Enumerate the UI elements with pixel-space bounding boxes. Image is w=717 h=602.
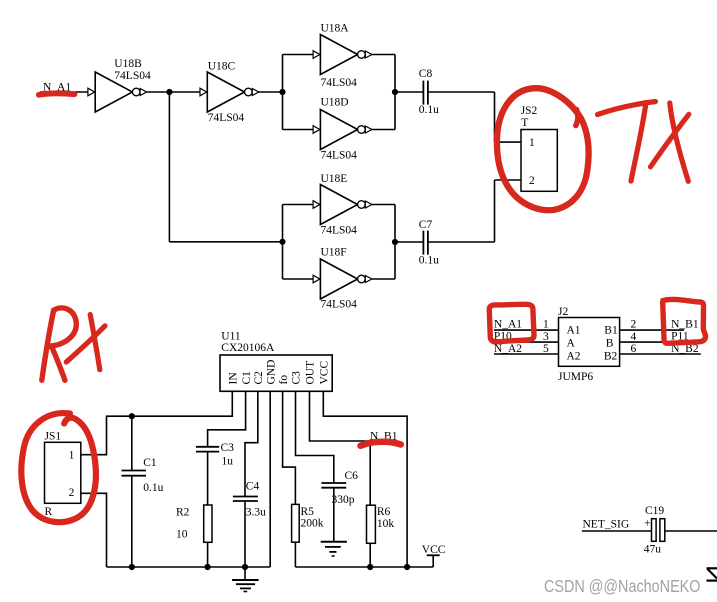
svg-text:74LS04: 74LS04 — [114, 70, 151, 82]
svg-text:B: B — [606, 338, 614, 350]
svg-text:J2: J2 — [558, 306, 568, 318]
svg-text:R5: R5 — [301, 506, 315, 518]
svg-text:0.1u: 0.1u — [419, 255, 439, 267]
svg-text:R6: R6 — [377, 506, 391, 518]
svg-text:R: R — [45, 506, 53, 518]
svg-text:IN: IN — [228, 372, 240, 385]
svg-text:0.1u: 0.1u — [419, 104, 439, 116]
svg-text:A2: A2 — [567, 351, 581, 363]
svg-text:74LS04: 74LS04 — [321, 77, 358, 89]
svg-text:NET_SIG: NET_SIG — [583, 519, 630, 531]
svg-text:3.3u: 3.3u — [246, 506, 266, 518]
svg-text:C1: C1 — [143, 457, 157, 469]
svg-text:A: A — [567, 338, 576, 350]
svg-text:N_A1: N_A1 — [494, 319, 522, 331]
svg-text:JS1: JS1 — [45, 431, 62, 443]
svg-text:1: 1 — [529, 137, 535, 149]
svg-text:U18A: U18A — [321, 22, 350, 34]
svg-text:U18C: U18C — [208, 61, 236, 73]
svg-text:C8: C8 — [419, 68, 433, 80]
svg-text:3: 3 — [543, 331, 549, 343]
svg-text:C3: C3 — [221, 442, 235, 454]
svg-text:+: + — [644, 517, 651, 529]
svg-text:2: 2 — [631, 319, 637, 331]
svg-text:U11: U11 — [221, 330, 241, 342]
svg-text:C7: C7 — [419, 219, 433, 231]
svg-text:74LS04: 74LS04 — [321, 299, 358, 311]
svg-text:JUMP6: JUMP6 — [558, 371, 593, 383]
svg-text:JS2: JS2 — [521, 105, 538, 117]
svg-text:U18D: U18D — [321, 97, 349, 109]
svg-text:1: 1 — [69, 450, 75, 462]
svg-text:C2: C2 — [253, 371, 265, 385]
svg-text:330p: 330p — [332, 494, 355, 506]
svg-text:74LS04: 74LS04 — [321, 225, 358, 237]
svg-text:10: 10 — [176, 529, 188, 541]
svg-text:B1: B1 — [604, 324, 618, 336]
svg-text:CSDN @@NachoNEKO: CSDN @@NachoNEKO — [544, 576, 701, 596]
svg-text:VCC: VCC — [422, 544, 446, 556]
svg-text:1: 1 — [543, 319, 549, 331]
svg-text:C1: C1 — [241, 371, 253, 385]
svg-text:VCC: VCC — [319, 361, 331, 385]
svg-text:C6: C6 — [345, 470, 359, 482]
svg-text:0.1u: 0.1u — [143, 482, 163, 494]
svg-text:U18F: U18F — [321, 247, 347, 259]
svg-text:200k: 200k — [301, 517, 324, 529]
svg-text:6: 6 — [631, 343, 637, 355]
svg-text:CX20106A: CX20106A — [221, 342, 275, 354]
svg-text:10k: 10k — [377, 518, 395, 530]
svg-text:N_A2: N_A2 — [494, 343, 522, 355]
svg-text:B2: B2 — [604, 351, 618, 363]
svg-text:OUT: OUT — [305, 361, 317, 385]
svg-text:4: 4 — [631, 331, 637, 343]
svg-text:T: T — [521, 117, 528, 129]
svg-text:74LS04: 74LS04 — [321, 150, 358, 162]
svg-text:5: 5 — [543, 343, 549, 355]
svg-text:47u: 47u — [644, 544, 662, 556]
svg-text:R2: R2 — [176, 506, 190, 518]
svg-text:74LS04: 74LS04 — [208, 112, 245, 124]
svg-text:C19: C19 — [645, 505, 664, 517]
svg-text:A1: A1 — [567, 324, 581, 336]
svg-text:U18B: U18B — [114, 58, 142, 70]
svg-text:C4: C4 — [246, 481, 260, 493]
svg-text:GND: GND — [265, 360, 277, 385]
svg-text:U18E: U18E — [321, 173, 348, 185]
svg-text:fo: fo — [278, 375, 290, 385]
svg-text:2: 2 — [69, 487, 75, 499]
svg-text:C3: C3 — [291, 371, 303, 385]
svg-text:N_B1: N_B1 — [671, 319, 699, 331]
svg-text:1u: 1u — [222, 456, 234, 468]
svg-text:2: 2 — [529, 175, 535, 187]
